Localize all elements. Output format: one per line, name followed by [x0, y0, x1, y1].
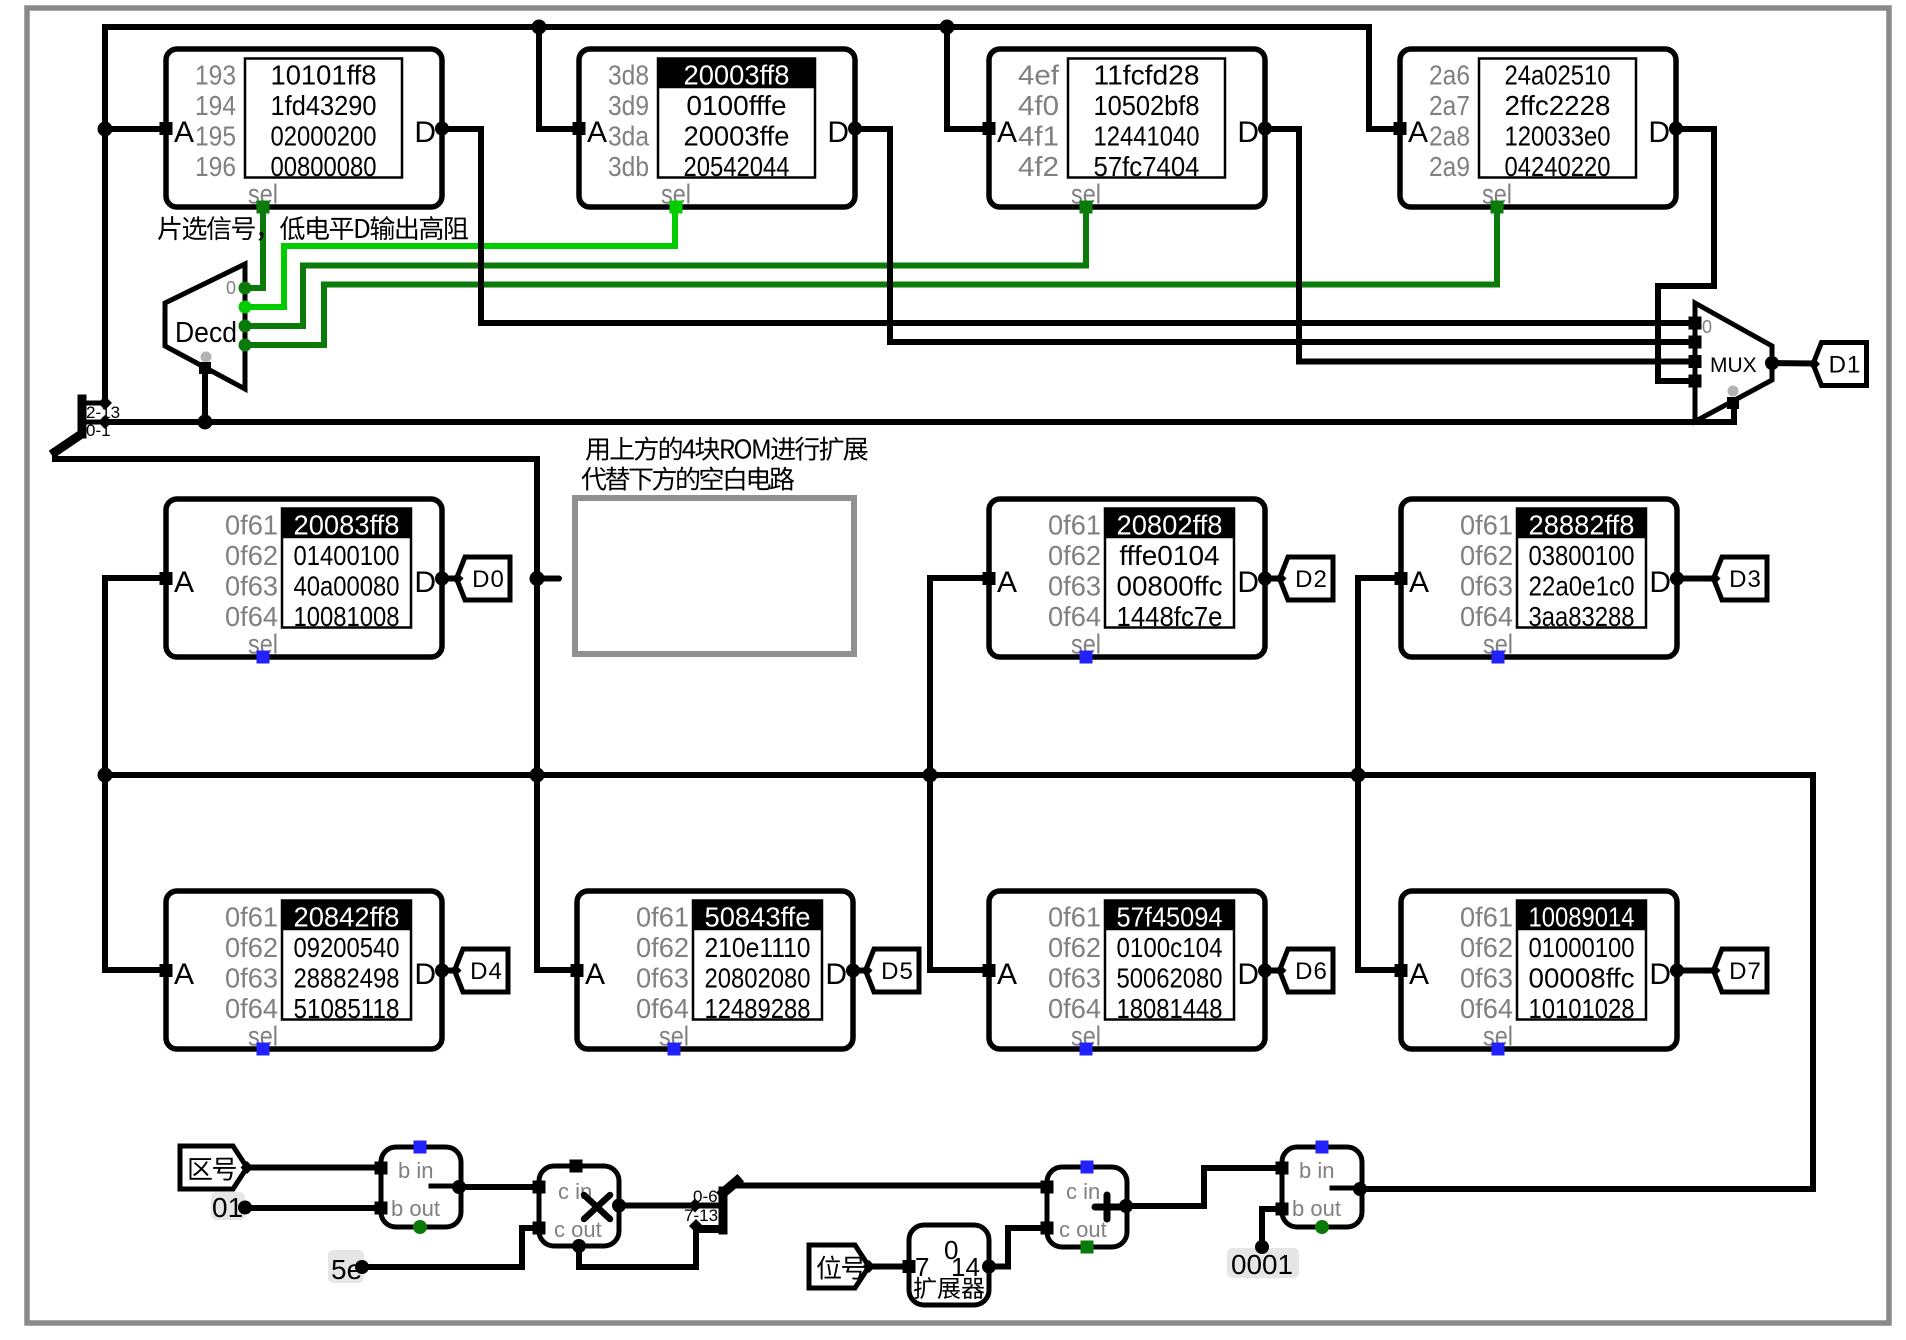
svg-text:00800ffc: 00800ffc	[1117, 571, 1223, 602]
svg-text:D: D	[414, 566, 436, 599]
wire U4 D to MUX in3	[1658, 129, 1714, 381]
svg-text:2a9: 2a9	[1429, 151, 1470, 182]
wire SP2 out to MUL c-in	[459, 1184, 533, 1190]
junction rail x=947	[940, 20, 955, 35]
svg-text:193: 193	[195, 60, 236, 91]
svg-text:0: 0	[226, 278, 236, 298]
svg-text:D: D	[825, 958, 847, 991]
wire 01 to SP2 b-out	[245, 1205, 374, 1211]
svg-text:7-13: 7-13	[684, 1206, 718, 1225]
svg-text:20083ff8: 20083ff8	[294, 510, 400, 541]
junction bus x=1358	[1351, 768, 1366, 783]
ROM U7 (D3)	[1395, 499, 1685, 664]
svg-text:18081448: 18081448	[1117, 993, 1223, 1024]
svg-text:50062080: 50062080	[1117, 963, 1223, 994]
svg-text:24a02510: 24a02510	[1505, 60, 1611, 91]
svg-text:10101028: 10101028	[1529, 993, 1635, 1024]
ROM U1 (addr 193-196)	[160, 49, 450, 214]
svg-text:2a6: 2a6	[1429, 60, 1470, 91]
wire MUX sel riser	[1731, 405, 1737, 422]
svg-text:A: A	[1409, 958, 1429, 991]
svg-text:A: A	[587, 116, 607, 149]
svg-text:A: A	[997, 116, 1017, 149]
svg-text:D: D	[414, 116, 436, 149]
wire column2 vertical x=537	[534, 459, 540, 970]
svg-text:0: 0	[1702, 317, 1712, 337]
svg-text:20802080: 20802080	[705, 963, 811, 994]
wire U2 D to MUX in1	[855, 129, 1695, 342]
decoder Decd	[165, 264, 252, 389]
svg-text:b out: b out	[391, 1196, 440, 1221]
wire U10 D to D6	[1265, 968, 1275, 974]
svg-text:2ffc2228: 2ffc2228	[1505, 90, 1611, 121]
wire sel0 (U1, low)	[245, 213, 263, 288]
ROM U6 (D2)	[983, 499, 1273, 664]
svg-text:0f63: 0f63	[1048, 571, 1101, 602]
svg-text:Decd: Decd	[175, 317, 237, 349]
svg-text:0f63: 0f63	[225, 571, 278, 602]
output tag D2	[1275, 557, 1334, 600]
wire stub at D0 node	[539, 576, 559, 582]
svg-text:2a7: 2a7	[1429, 90, 1470, 121]
output tag D4	[450, 949, 509, 992]
svg-text:14: 14	[951, 1252, 980, 1282]
svg-text:0100c104: 0100c104	[1117, 932, 1223, 963]
svg-text:0f61: 0f61	[1460, 510, 1513, 541]
svg-text:0f62: 0f62	[1460, 540, 1513, 571]
svg-text:3db: 3db	[608, 151, 649, 182]
svg-text:D: D	[1237, 958, 1259, 991]
svg-text:10081008: 10081008	[294, 601, 400, 632]
wire U2 A drop	[539, 27, 573, 129]
output tag D1	[1808, 343, 1867, 386]
constant 0001	[1227, 1240, 1299, 1280]
wire expander to ADD c-out	[989, 1228, 1041, 1267]
splitter SP4 (0-6 / 7-13)	[684, 1181, 737, 1233]
adder A1 (c in / c out)	[1041, 1161, 1134, 1254]
wire U1 A stub	[105, 126, 160, 132]
svg-text:196: 196	[195, 151, 236, 182]
wire 位号 to expander	[869, 1264, 903, 1270]
ROM U3 (addr 4ef-4f2)	[983, 49, 1273, 214]
svg-text:0f61: 0f61	[1460, 902, 1513, 933]
constant 5e	[328, 1250, 369, 1285]
wire U7 D to D3	[1677, 576, 1709, 582]
svg-text:210e1110: 210e1110	[705, 932, 811, 963]
svg-text:D: D	[1649, 566, 1671, 599]
svg-text:57fc7404: 57fc7404	[1094, 151, 1200, 182]
junction decoder sel on 0-1 rail	[198, 415, 213, 430]
svg-text:0f64: 0f64	[1460, 601, 1513, 632]
wire U8 D to D4	[442, 968, 450, 974]
wire sel3 (U4, low)	[245, 213, 1497, 345]
wire 0-1 select rail	[105, 419, 1734, 425]
svg-text:195: 195	[195, 121, 236, 152]
svg-text:4f0: 4f0	[1018, 90, 1059, 121]
svg-text:3d8: 3d8	[608, 60, 649, 91]
wire 5e to MUL c-out	[362, 1228, 533, 1267]
output tag D3	[1709, 557, 1768, 600]
svg-text:01400100: 01400100	[294, 540, 400, 571]
svg-text:A: A	[585, 958, 605, 991]
svg-text:D: D	[1237, 116, 1259, 149]
wire sel2 (U3, low)	[245, 213, 1086, 326]
svg-text:D7: D7	[1729, 958, 1762, 985]
svg-text:A: A	[174, 566, 194, 599]
wire U8 A stub	[105, 967, 160, 973]
wire rail to U1 A / splitter riser	[102, 27, 108, 403]
svg-text:0f64: 0f64	[1048, 601, 1101, 632]
ROM U10 (D6)	[983, 891, 1273, 1056]
svg-text:0f62: 0f62	[225, 932, 278, 963]
wire U11 D to D7	[1677, 968, 1709, 974]
wire U1 D to MUX in0	[443, 129, 1695, 323]
svg-text:1448fc7e: 1448fc7e	[1117, 601, 1223, 632]
output tag D6	[1275, 949, 1334, 992]
svg-text:1fd43290: 1fd43290	[271, 90, 377, 121]
wire U5 D to D0	[442, 576, 452, 582]
svg-text:D6: D6	[1295, 958, 1328, 985]
svg-text:0f62: 0f62	[1460, 932, 1513, 963]
wire U5 A stub	[105, 575, 160, 581]
wire MUL bottom to SP4 7-13	[579, 1231, 696, 1267]
svg-text:D5: D5	[881, 958, 914, 985]
svg-text:0f64: 0f64	[225, 993, 278, 1024]
constant 01	[211, 1192, 252, 1223]
svg-text:50843ffe: 50843ffe	[705, 902, 811, 933]
multiplexer MUX	[1689, 303, 1780, 422]
svg-text:0f61: 0f61	[1048, 510, 1101, 541]
wire U9 D to D5	[853, 968, 861, 974]
output tag D0	[452, 557, 511, 600]
svg-text:0100fffe: 0100fffe	[686, 90, 786, 121]
wire U9 A stub	[537, 967, 571, 973]
svg-text:3d9: 3d9	[608, 90, 649, 121]
wire U6 A stub	[930, 575, 983, 581]
svg-text:0f63: 0f63	[1460, 571, 1513, 602]
svg-text:0-1: 0-1	[86, 421, 111, 440]
svg-text:A: A	[1408, 116, 1428, 149]
svg-text:10089014: 10089014	[1529, 902, 1635, 933]
svg-text:c in: c in	[1066, 1179, 1100, 1204]
ROM U8 (D4)	[160, 891, 450, 1056]
svg-text:4f1: 4f1	[1018, 121, 1059, 152]
svg-text:0f62: 0f62	[1048, 540, 1101, 571]
wire U4 A drop	[1369, 27, 1394, 129]
svg-text:28882ff8: 28882ff8	[1529, 510, 1635, 541]
svg-text:D0: D0	[472, 566, 505, 593]
svg-text:0f63: 0f63	[1460, 963, 1513, 994]
svg-text:D2: D2	[1295, 566, 1328, 593]
svg-text:28882498: 28882498	[294, 963, 400, 994]
wire ADD out to SP3 b-in	[1126, 1168, 1277, 1206]
svg-text:3da: 3da	[608, 121, 649, 152]
svg-text:3aa83288: 3aa83288	[1529, 601, 1635, 632]
svg-text:12489288: 12489288	[705, 993, 811, 1024]
svg-text:D: D	[1649, 958, 1671, 991]
wire 0001 to SP3 b-out	[1262, 1209, 1277, 1247]
ROM U2 (addr 3d8-3db, selected)	[573, 49, 863, 214]
expander X1 (扩展器)	[903, 1225, 997, 1305]
svg-text:0f63: 0f63	[1048, 963, 1101, 994]
svg-text:20842ff8: 20842ff8	[294, 902, 400, 933]
svg-text:c out: c out	[1059, 1217, 1107, 1242]
svg-text:03800100: 03800100	[1529, 540, 1635, 571]
svg-text:2-13: 2-13	[86, 403, 120, 422]
annotation 片选信号	[158, 216, 180, 240]
svg-text:2a8: 2a8	[1429, 121, 1470, 152]
input tag 位号	[809, 1245, 876, 1288]
wire 区号 to SP2 b-in	[247, 1165, 374, 1171]
svg-text:0f62: 0f62	[1048, 932, 1101, 963]
wire right riser x=1813	[1810, 775, 1816, 1189]
svg-text:194: 194	[195, 90, 236, 121]
annotation 代替下方	[582, 467, 607, 491]
wire splitter SP3 out to riser	[1362, 1186, 1813, 1192]
junction bus x=105	[98, 768, 113, 783]
wire sel1 (U2, high)	[245, 213, 675, 307]
ROM U4 (addr 2a6-2a9)	[1394, 49, 1684, 214]
ROM U11 (D7)	[1395, 891, 1685, 1056]
junction column2 bus	[530, 768, 545, 783]
svg-text:A: A	[174, 116, 194, 149]
wire address bus y=775	[105, 772, 1813, 778]
svg-text:57f45094: 57f45094	[1117, 902, 1223, 933]
svg-text:0-6: 0-6	[693, 1187, 718, 1206]
svg-text:D: D	[827, 116, 849, 149]
wire U11 A stub	[1358, 967, 1395, 973]
svg-text:0f62: 0f62	[636, 932, 689, 963]
subcircuit SP2 (b in / b out)	[375, 1141, 467, 1235]
svg-text:20003ff8: 20003ff8	[684, 60, 790, 91]
svg-text:09200540: 09200540	[294, 932, 400, 963]
svg-text:4f2: 4f2	[1018, 151, 1059, 182]
svg-text:12441040: 12441040	[1094, 121, 1200, 152]
svg-text:40a00080: 40a00080	[294, 571, 400, 602]
ROM U9 (D5)	[571, 891, 861, 1056]
svg-text:22a0e1c0: 22a0e1c0	[1529, 571, 1635, 602]
subcircuit SP3 (b in / b out)	[1276, 1141, 1368, 1235]
wire column3 vertical x=930	[927, 578, 933, 970]
svg-text:7: 7	[915, 1252, 929, 1282]
svg-text:4ef: 4ef	[1018, 60, 1059, 91]
svg-text:0f63: 0f63	[225, 963, 278, 994]
svg-text:0f64: 0f64	[225, 601, 278, 632]
wire U10 A stub	[930, 967, 983, 973]
svg-text:D4: D4	[470, 958, 503, 985]
wire decoder sel drop	[202, 368, 208, 422]
wire column1 vertical x=105	[102, 578, 108, 970]
svg-text:0f61: 0f61	[225, 510, 278, 541]
svg-text:A: A	[174, 958, 194, 991]
svg-text:51085118: 51085118	[294, 993, 400, 1024]
svg-text:b in: b in	[1299, 1158, 1334, 1183]
svg-text:04240220: 04240220	[1505, 151, 1611, 182]
svg-text:10101ff8: 10101ff8	[271, 60, 377, 91]
wire U3 A drop	[947, 27, 983, 129]
output tag D7	[1709, 949, 1768, 992]
ROM U5 (D0)	[160, 499, 450, 664]
wire MUX out to D1	[1772, 360, 1813, 367]
output tag D5	[861, 949, 920, 992]
svg-text:c out: c out	[554, 1217, 602, 1242]
svg-text:D: D	[1237, 566, 1259, 599]
svg-text:D: D	[1648, 116, 1670, 149]
svg-text:11fcfd28: 11fcfd28	[1094, 60, 1200, 91]
svg-text:D: D	[414, 958, 436, 991]
splitter SP1 (2-13 / 0-1)	[55, 396, 120, 452]
svg-text:0f61: 0f61	[636, 902, 689, 933]
wire U6 D to D2	[1265, 576, 1275, 582]
svg-text:b out: b out	[1292, 1196, 1341, 1221]
junction bus x=930	[923, 768, 938, 783]
svg-text:fffe0104: fffe0104	[1119, 540, 1219, 571]
svg-text:A: A	[997, 566, 1017, 599]
wire U3 D to MUX in2	[1265, 129, 1695, 362]
svg-text:b in: b in	[398, 1158, 433, 1183]
svg-text:20542044: 20542044	[684, 151, 790, 182]
junction rail x=539	[532, 20, 547, 35]
wire SP4 merged to ADD c-in	[736, 1183, 1041, 1189]
svg-text:20802ff8: 20802ff8	[1117, 510, 1223, 541]
svg-text:10502bf8: 10502bf8	[1094, 90, 1200, 121]
svg-text:0f64: 0f64	[636, 993, 689, 1024]
svg-text:01000100: 01000100	[1529, 932, 1635, 963]
svg-text:MUX: MUX	[1710, 354, 1757, 377]
junction U1 A	[98, 122, 113, 137]
multiplier M1 (c in / c out)	[533, 1160, 627, 1254]
wire top address rail	[105, 24, 1369, 30]
svg-text:0f61: 0f61	[225, 902, 278, 933]
svg-text:0f63: 0f63	[636, 963, 689, 994]
svg-text:120033e0: 120033e0	[1505, 121, 1611, 152]
input tag 区号	[180, 1146, 254, 1189]
wire SP1 input from bus	[55, 451, 537, 459]
svg-text:00008ffc: 00008ffc	[1529, 963, 1635, 994]
svg-text:0f64: 0f64	[1460, 993, 1513, 1024]
svg-text:0f61: 0f61	[1048, 902, 1101, 933]
svg-text:0f64: 0f64	[1048, 993, 1101, 1024]
wire MUL out to SP4 input	[619, 1203, 719, 1209]
svg-text:D1: D1	[1829, 352, 1862, 379]
blank placeholder box	[575, 498, 854, 654]
svg-text:A: A	[1409, 566, 1429, 599]
svg-text:0f62: 0f62	[225, 540, 278, 571]
annotation 用上方	[586, 438, 608, 460]
wire column4 vertical x=1358	[1355, 578, 1361, 970]
svg-text:02000200: 02000200	[271, 121, 377, 152]
junction D0 node	[530, 571, 545, 586]
svg-text:20003ffe: 20003ffe	[684, 121, 790, 152]
svg-text:A: A	[997, 958, 1017, 991]
svg-text:D3: D3	[1729, 566, 1762, 593]
svg-text:00800080: 00800080	[271, 151, 377, 182]
wire U7 A stub	[1358, 575, 1395, 581]
